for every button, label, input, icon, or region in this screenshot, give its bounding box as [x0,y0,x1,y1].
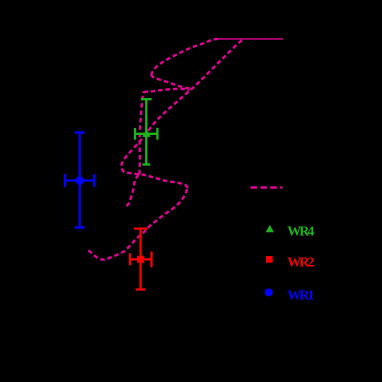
evolutionary track: final horizontal WR line [217,38,283,40]
star WR1: horizontal error bar [65,174,94,187]
legend: WR1 circle marker [265,288,273,296]
evolutionary track: main-sequence rise segment [89,188,188,260]
star WR4: horizontal error bar [135,128,157,140]
svg-text:WR1: WR1 [287,288,314,303]
evolutionary track: loop lower edge [151,75,189,88]
svg-text:WR2: WR2 [287,255,314,270]
evolutionary track: shallow rightward shelf [144,89,190,92]
legend: dashed track sample [251,186,283,189]
star WR1: vertical error bar [75,133,85,228]
star WR2: square marker [137,256,144,263]
evolutionary track: vertical climb segment [139,92,143,174]
evolutionary track: post-junction descending tail [125,175,139,208]
evolutionary track: return-to-blue segment [139,174,187,188]
svg-text:WR4: WR4 [287,224,314,239]
star WR2: horizontal error bar [130,252,152,268]
evolutionary track: hook from junction to west apex [121,166,139,175]
star WR4: triangle marker [142,129,150,137]
evolutionary track: long diagonal to top right [121,39,243,165]
star WR2: vertical error bar [134,229,148,290]
star WR1: circle marker [75,176,84,185]
legend: WR2 square marker [266,256,273,263]
star WR4: vertical error bar [141,99,152,164]
evolutionary track: loop top edge [151,39,218,76]
legend: WR4 triangle marker [266,225,274,232]
